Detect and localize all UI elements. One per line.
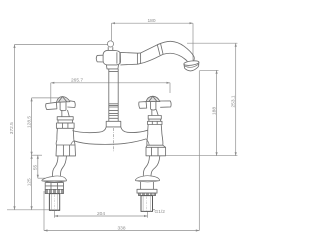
ext line deck plane right [166, 155, 238, 157]
spout tube lower edge [120, 53, 187, 65]
svg-text:265.7: 265.7 [71, 78, 83, 84]
dim text 55 [33, 165, 39, 171]
dim 125 line [31, 155, 33, 210]
column tube [109, 69, 118, 121]
right bell flange [135, 176, 159, 182]
dim text 204 [97, 211, 105, 217]
bridge tee flare [99, 127, 128, 132]
dim text 338 [117, 226, 125, 232]
column collar under tee [106, 65, 118, 69]
svg-text:253.1: 253.1 [231, 95, 237, 107]
dim 372.5 line [14, 45, 16, 210]
dim 180 line [112, 22, 194, 24]
svg-text:188: 188 [211, 107, 217, 115]
dim 128.5 line [31, 98, 33, 155]
bridge tube bottom edge [74, 139, 146, 144]
ext line from ball top to 180 dim [111, 23, 113, 40]
svg-text:338: 338 [117, 226, 125, 232]
left shank [49, 194, 59, 211]
arrowheads [13, 22, 236, 231]
left leg S-curve [53, 156, 67, 177]
dim 338 line [44, 230, 199, 232]
spout tube upper edge [120, 41, 194, 61]
tee body [103, 50, 120, 65]
left valve stem [62, 110, 70, 117]
ext line handle top to 128.5 dim [32, 97, 61, 99]
ext line shank bottom plane [7, 209, 60, 211]
left deck hex nut [56, 145, 76, 156]
svg-text:204: 204 [97, 211, 105, 217]
dim text 372.5 [9, 122, 15, 134]
spout union band 2 [157, 44, 163, 56]
right under-bell tube [141, 182, 154, 189]
dim text 265.7 [71, 78, 83, 84]
svg-text:125: 125 [26, 178, 32, 186]
svg-text:G1/2: G1/2 [155, 209, 166, 215]
right valve body [148, 125, 162, 135]
svg-text:372.5: 372.5 [9, 122, 15, 134]
right shank [141, 196, 153, 212]
bridge end fillets [71, 139, 149, 145]
dim text 253.1 [231, 95, 237, 107]
dim text 188 [211, 107, 217, 115]
ext tick at deck level for 128.5/125 [31, 154, 42, 156]
knob finial [107, 41, 113, 47]
ext line left handle to 265.7 dim [50, 83, 52, 103]
column collar [106, 121, 121, 127]
ext line right handle to 265.7 dim [169, 83, 171, 93]
ext line from spout end to 180 dim [192, 23, 194, 60]
ext line left shank to 204 dim [54, 211, 56, 218]
right body flare [147, 134, 163, 145]
ext line right shank to 204 dim [147, 212, 149, 218]
aerator [184, 60, 200, 71]
ext line bell top to 55 dim [38, 177, 46, 179]
ext line aerator bottom to 188 dim [200, 69, 219, 71]
left valve body [57, 128, 74, 140]
column centerline [112, 128, 114, 152]
left shank centerline [54, 195, 56, 211]
svg-text:55: 55 [33, 165, 39, 171]
tee left stub cap [96, 55, 103, 62]
left body flare [56, 140, 75, 145]
ext line aerator to 338 dim [198, 71, 200, 231]
column rings [109, 72, 118, 119]
left handle cross [46, 97, 76, 111]
bridge tube top edge [73, 130, 148, 132]
left bell flange [42, 176, 67, 182]
ext line left flange to 338 dim [43, 191, 45, 231]
right washer [139, 193, 156, 196]
G1/2 leader tick [153, 209, 156, 211]
left washer [45, 189, 63, 193]
right bonnet rings [148, 116, 163, 125]
right handle cross [139, 96, 171, 110]
dim text 128.5 [26, 116, 32, 128]
right deck hex nut [146, 145, 166, 156]
left bonnet rings [57, 117, 73, 123]
dim 204 line [55, 215, 148, 217]
dim text 125 [26, 178, 32, 186]
spout union band 1 [137, 53, 140, 64]
right leg S-curve [143, 156, 160, 176]
dim 55 line [37, 155, 39, 178]
dim 188 line [216, 70, 218, 155]
left locknut [45, 183, 63, 190]
knob neck [108, 47, 113, 50]
right valve stem [152, 110, 158, 116]
dim 253.1 line [235, 43, 237, 156]
dim 265.7 line [51, 82, 170, 84]
svg-text:180: 180 [147, 18, 155, 24]
left bonnet hex [56, 123, 74, 128]
dim text 180 [147, 18, 155, 24]
ext line ball level to 372.5 dim [15, 44, 108, 46]
spout flange rings [117, 52, 120, 64]
ext line spout top to 253.1 dim [187, 42, 237, 44]
label G1/2 [155, 209, 166, 215]
right shank centerline [146, 197, 148, 212]
right locknut [137, 189, 157, 193]
svg-text:128.5: 128.5 [26, 116, 32, 128]
